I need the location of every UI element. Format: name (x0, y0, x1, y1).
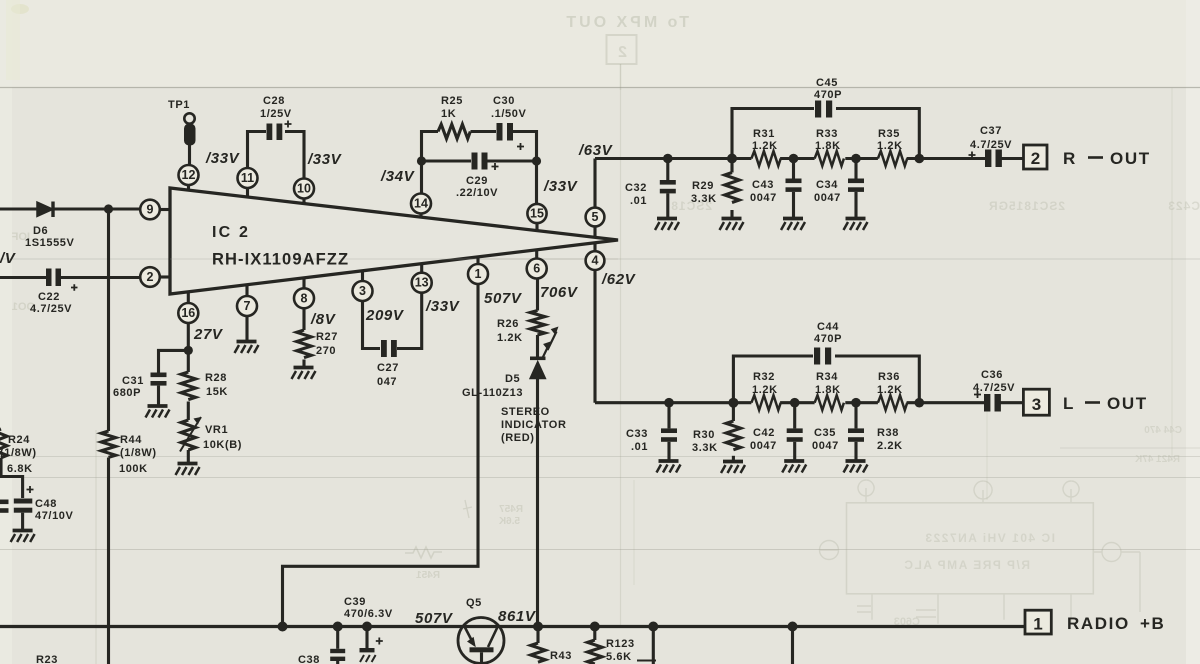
svg-text:+B: +B (1140, 614, 1165, 633)
svg-text:2: 2 (1031, 149, 1040, 168)
svg-text:D5: D5 (505, 373, 520, 385)
capacitor C31 (151, 373, 167, 378)
svg-text:5: 5 (592, 210, 599, 224)
resistor R28 (187, 350, 190, 372)
svg-text:C37: C37 (980, 125, 1002, 137)
resistor R25 (438, 124, 470, 138)
pin 6: R26 and LED D5 (536, 279, 539, 311)
svg-text:0047: 0047 (814, 192, 841, 204)
svg-text:GL-110Z13: GL-110Z13 (462, 387, 523, 399)
svg-text:R123: R123 (606, 638, 635, 650)
svg-text:3: 3 (359, 284, 366, 298)
svg-text:470P: 470P (814, 89, 842, 101)
svg-text:(RED): (RED) (501, 432, 535, 444)
potentiometer VR1 (181, 420, 196, 450)
svg-text:3.3K: 3.3K (691, 193, 717, 205)
node at x=108.5 (104, 204, 113, 213)
svg-text:0047: 0047 (750, 192, 777, 204)
pin 9 (140, 200, 160, 220)
svg-text:1.2K: 1.2K (877, 384, 903, 396)
svg-text:507V: 507V (484, 290, 523, 307)
svg-text:INDICATOR: INDICATOR (501, 419, 567, 431)
svg-text:To MPX OUT: To MPX OUT (563, 14, 689, 31)
svg-text:680P: 680P (113, 387, 141, 399)
pin 2 (140, 267, 160, 287)
svg-text:TP1: TP1 (168, 99, 190, 111)
svg-text:4.7/25V: 4.7/25V (973, 382, 1015, 394)
svg-text:0047: 0047 (750, 440, 777, 452)
resistor R32 (751, 395, 780, 410)
resistor R33 (815, 151, 844, 166)
pin 13 (412, 273, 432, 293)
svg-text:(1/8W): (1/8W) (120, 447, 157, 459)
ground under R27 (292, 368, 316, 380)
ghost horizontal scan lines (0, 87, 1200, 89)
test point TP1 (184, 113, 194, 123)
svg-text:27V: 27V (193, 326, 224, 343)
terminal box 2 (1024, 145, 1048, 169)
svg-text:16: 16 (181, 306, 195, 320)
LED arrows (543, 332, 557, 359)
svg-text:1.2K: 1.2K (752, 140, 778, 152)
pin 3 (353, 281, 373, 301)
pin 1 (468, 264, 488, 284)
svg-text:C35: C35 (814, 427, 836, 439)
wire D6 to pin9 (53, 207, 140, 210)
svg-text:C39: C39 (344, 596, 366, 608)
svg-text:12: 12 (182, 168, 196, 182)
svg-text:4: 4 (592, 254, 599, 268)
svg-text:6.8K: 6.8K (7, 463, 33, 475)
capacitor C28 loop (248, 132, 267, 169)
svg-text:2: 2 (147, 270, 154, 284)
terminal box 1 (1025, 610, 1051, 634)
R24 edge resistor (0, 429, 7, 458)
svg-text:Q5: Q5 (466, 597, 482, 609)
wire input to C22 (0, 276, 46, 279)
svg-text:15K: 15K (206, 386, 228, 398)
svg-text:STEREO: STEREO (501, 406, 550, 418)
resistor R44 (101, 431, 115, 457)
pin 14 (420, 161, 423, 194)
svg-text:OUT: OUT (1107, 394, 1148, 413)
pin 7 (237, 296, 257, 316)
diode D6 (37, 202, 53, 217)
svg-text:100K: 100K (119, 463, 148, 475)
svg-text:0047: 0047 (812, 440, 839, 452)
svg-text:209V: 209V (365, 307, 405, 324)
svg-text:470P: 470P (814, 333, 842, 345)
svg-text:1: 1 (475, 267, 482, 281)
svg-text:9: 9 (147, 203, 154, 217)
svg-text:C33: C33 (626, 428, 648, 440)
capacitor C42 (793, 403, 796, 429)
svg-text:R44: R44 (120, 434, 142, 446)
wire from pin5 node to R-OUT (595, 157, 985, 160)
capacitor C39 (365, 627, 368, 649)
svg-text:10: 10 (297, 182, 311, 196)
wire input to D6 (0, 207, 37, 210)
svg-text:R: R (1063, 149, 1077, 168)
svg-text:47/10V: 47/10V (35, 510, 74, 522)
R25 / C30 / C29 network (422, 132, 439, 162)
ghost terminal box 2 (mirrored) (607, 35, 637, 64)
pin8: resistor R27 (302, 308, 305, 330)
capacitor C34 (854, 159, 857, 179)
svg-text:R31: R31 (753, 128, 775, 140)
capacitor C38 (336, 627, 339, 649)
svg-text:/62V: /62V (601, 271, 637, 288)
resistor R31 (751, 151, 780, 166)
svg-text:2: 2 (618, 44, 627, 61)
svg-text:.1/50V: .1/50V (491, 108, 526, 120)
svg-text:R/P PRE AMP ALC: R/P PRE AMP ALC (903, 558, 1030, 572)
svg-text:C42: C42 (753, 427, 775, 439)
svg-text:507V: 507V (415, 610, 454, 627)
svg-text:IC 2: IC 2 (212, 224, 250, 241)
svg-text:3: 3 (1032, 395, 1041, 414)
resistor R26 (530, 311, 545, 336)
wire C22 to pin2 (61, 276, 140, 279)
svg-text:270: 270 (316, 345, 336, 357)
svg-text:R30: R30 (693, 429, 715, 441)
svg-text:C34: C34 (816, 179, 838, 191)
svg-text:706V: 706V (540, 284, 579, 301)
svg-text:OUT: OUT (1110, 149, 1151, 168)
svg-text:1.8K: 1.8K (815, 140, 841, 152)
pin 6 (527, 259, 547, 279)
ghost mirrored part numbers near R-OUT row (670, 199, 1200, 213)
svg-text:IC 401 VHi AN7223: IC 401 VHi AN7223 (924, 531, 1055, 545)
svg-text:R34: R34 (816, 371, 838, 383)
svg-text:C44 470: C44 470 (1144, 425, 1182, 436)
svg-text:4.7/25V: 4.7/25V (30, 303, 72, 315)
pin 4 (586, 251, 605, 270)
svg-text:3.3K: 3.3K (692, 442, 718, 454)
terminal box 3 (1023, 389, 1049, 415)
ground under C31 (146, 406, 170, 418)
svg-text:R36: R36 (878, 371, 900, 383)
svg-text:C45: C45 (816, 77, 838, 89)
ghost bleed-through: To MPX OUT (mirrored) (563, 14, 689, 31)
LED D5 (530, 356, 546, 360)
svg-text:R25: R25 (441, 95, 463, 107)
svg-text:1K: 1K (441, 108, 456, 120)
capacitor C30 (497, 123, 503, 141)
transistor Q5 (458, 618, 504, 664)
svg-text:R24: R24 (8, 434, 30, 446)
svg-text:.01: .01 (630, 195, 647, 207)
svg-text:5.6K: 5.6K (606, 651, 632, 663)
edge capacitor fragment (0, 500, 9, 505)
svg-text:8: 8 (301, 291, 308, 305)
svg-text:R29: R29 (692, 180, 714, 192)
capacitor C37 (985, 150, 991, 168)
capacitor C29 middle branch (422, 159, 472, 162)
pin 10 (294, 179, 314, 199)
svg-text:C36: C36 (981, 369, 1003, 381)
svg-text:R38: R38 (877, 427, 899, 439)
svg-text:RADIO: RADIO (1067, 614, 1130, 633)
svg-text:7: 7 (244, 299, 251, 313)
svg-text:/8V: /8V (310, 311, 337, 328)
capacitor C48 (14, 499, 33, 504)
svg-text:R27: R27 (316, 331, 338, 343)
svg-text:C48: C48 (35, 498, 57, 510)
ground under VR1 (176, 464, 200, 476)
ghost IC401 block bottom right (820, 480, 1141, 624)
capacitor C36 (984, 394, 990, 412)
svg-text:1S1555V: 1S1555V (25, 237, 75, 249)
svg-text:C32: C32 (625, 182, 647, 194)
ghost vertical line below box2 (620, 64, 622, 90)
capacitor C44 loop (733, 356, 813, 403)
svg-text:1.2K: 1.2K (877, 140, 903, 152)
svg-text:/34V: /34V (380, 168, 416, 185)
ghost small resistor bottom-left area (405, 500, 472, 558)
capacitor C35 (854, 403, 857, 429)
svg-text:11: 11 (241, 171, 254, 185)
svg-text:/33V: /33V (307, 151, 343, 168)
svg-text:1.2K: 1.2K (497, 332, 523, 344)
svg-text:C27: C27 (377, 362, 399, 374)
svg-text:047: 047 (377, 376, 397, 388)
svg-text:(1/8W): (1/8W) (0, 447, 37, 459)
svg-text:D6: D6 (33, 225, 48, 237)
svg-text:R451: R451 (416, 570, 440, 581)
svg-text:C30: C30 (493, 95, 515, 107)
svg-text:470/6.3V: 470/6.3V (344, 608, 393, 620)
svg-text:4.7/25V: 4.7/25V (970, 139, 1012, 151)
svg-text:1/25V: 1/25V (260, 108, 292, 120)
svg-text:2SC1815GR: 2SC1815GR (988, 199, 1065, 213)
svg-text:R33: R33 (816, 128, 838, 140)
op-amp IC2 triangle (170, 188, 618, 294)
svg-text:.01: .01 (631, 441, 648, 453)
svg-text:RH-IX1109AFZZ: RH-IX1109AFZZ (212, 251, 349, 269)
svg-text:C423: C423 (1167, 199, 1200, 213)
resistor R36 (878, 395, 907, 410)
svg-text:C38: C38 (298, 654, 320, 664)
svg-text:/33V: /33V (543, 178, 579, 195)
svg-text:R421 47K: R421 47K (1134, 454, 1180, 465)
svg-text:R23: R23 (36, 654, 58, 664)
resistor R123 (593, 627, 596, 641)
capacitor C45 loop (732, 109, 814, 159)
pin 15 (535, 161, 538, 204)
svg-text:1.8K: 1.8K (815, 384, 841, 396)
svg-text:1: 1 (1033, 615, 1042, 634)
svg-text:R28: R28 (205, 372, 227, 384)
svg-text:R43: R43 (550, 650, 572, 662)
pin 1 long wire to bottom (283, 284, 479, 627)
svg-text:13: 13 (415, 276, 429, 290)
svg-text:R32: R32 (753, 371, 775, 383)
svg-text:861V: 861V (498, 608, 537, 625)
capacitor C33 (667, 403, 670, 429)
svg-text:5.6K: 5.6K (498, 516, 520, 527)
wire vertical rail x=108.5 down to bottom (107, 209, 110, 431)
pin 8 (294, 288, 314, 308)
svg-text:R26: R26 (497, 318, 519, 330)
svg-text:R457: R457 (499, 504, 523, 515)
svg-text:/33V: /33V (205, 150, 241, 167)
resistor R35 (878, 151, 907, 166)
svg-text:15: 15 (530, 207, 544, 221)
svg-text:C22: C22 (38, 291, 60, 303)
svg-text:R35: R35 (878, 128, 900, 140)
svg-text:.22/10V: .22/10V (456, 187, 498, 199)
capacitor C27 between pins 3 and 13 (363, 301, 381, 349)
pin 11 (238, 168, 258, 188)
resistor R43 (536, 627, 539, 644)
node dots (417, 156, 426, 165)
svg-text:C28: C28 (263, 95, 285, 107)
pin 12 (179, 165, 199, 185)
svg-text:L: L (1063, 394, 1075, 413)
svg-text:14: 14 (414, 197, 428, 211)
svg-text:C29: C29 (466, 175, 488, 187)
svg-text:VR1: VR1 (205, 424, 228, 436)
resistor R29 (730, 159, 733, 173)
svg-text:/33V: /33V (425, 298, 461, 315)
pin 16 (178, 303, 198, 323)
pin 5 (586, 208, 605, 227)
capacitor C43 (792, 159, 795, 179)
pin16 circuit: R28, C31, VR1 (187, 323, 190, 350)
resistor R30 (732, 403, 735, 421)
pin7 ground (245, 316, 248, 340)
capacitor C32 (666, 159, 669, 181)
svg-text:1.2K: 1.2K (752, 384, 778, 396)
svg-text:10K(B): 10K(B) (203, 439, 242, 451)
svg-text:6: 6 (533, 262, 540, 276)
resistor R34 (815, 395, 844, 410)
svg-text:C31: C31 (122, 375, 144, 387)
svg-text:/V: /V (0, 250, 17, 267)
capacitor C22 (46, 269, 52, 287)
svg-text:C43: C43 (752, 179, 774, 191)
svg-text:2.2K: 2.2K (877, 440, 903, 452)
svg-text:/63V: /63V (578, 142, 614, 159)
svg-text:C44: C44 (817, 321, 839, 333)
